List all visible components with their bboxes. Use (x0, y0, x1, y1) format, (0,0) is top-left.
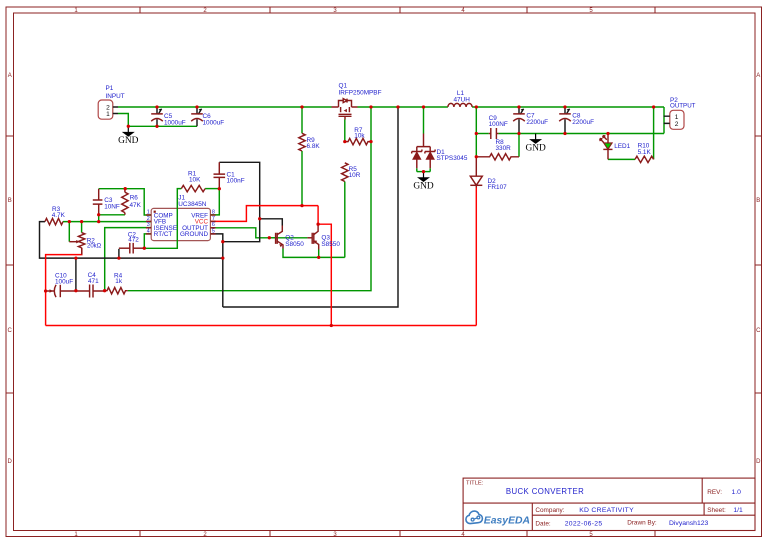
svg-text:GND: GND (118, 136, 139, 146)
svg-text:1000uF: 1000uF (203, 120, 225, 127)
svg-text:KD CREATIVITY: KD CREATIVITY (579, 507, 634, 514)
svg-text:IRFP250MPBF: IRFP250MPBF (339, 89, 382, 96)
svg-text:6.8K: 6.8K (307, 143, 321, 150)
svg-text:100uF: 100uF (55, 278, 73, 285)
svg-text:2: 2 (675, 121, 679, 128)
svg-text:330R: 330R (496, 145, 512, 152)
svg-text:Sheet:: Sheet: (707, 507, 726, 514)
svg-text:10K: 10K (189, 177, 201, 184)
svg-text:Divyansh123: Divyansh123 (669, 520, 709, 527)
svg-text:FR107: FR107 (488, 184, 508, 191)
svg-text:2022-06-25: 2022-06-25 (565, 520, 603, 527)
svg-text:D: D (756, 459, 761, 465)
svg-text:1: 1 (106, 111, 110, 118)
svg-text:Date:: Date: (535, 520, 550, 527)
svg-text:1: 1 (147, 210, 150, 216)
svg-text:10k: 10k (354, 133, 365, 140)
svg-text:REV:: REV: (707, 489, 722, 496)
svg-text:EasyEDA: EasyEDA (484, 516, 530, 527)
svg-text:1/1: 1/1 (733, 507, 743, 514)
svg-text:D: D (8, 459, 13, 465)
svg-text:47K: 47K (130, 202, 142, 209)
svg-text:OUTPUT: OUTPUT (670, 103, 696, 110)
svg-text:P1: P1 (106, 85, 114, 92)
svg-text:R6: R6 (130, 195, 139, 202)
svg-text:20kΩ: 20kΩ (87, 244, 102, 250)
svg-text:GND: GND (525, 143, 546, 153)
svg-text:6: 6 (212, 222, 215, 228)
svg-text:2200uF: 2200uF (526, 119, 548, 126)
svg-text:LED1: LED1 (614, 143, 630, 150)
svg-text:5: 5 (212, 229, 215, 235)
svg-text:BUCK CONVERTER: BUCK CONVERTER (506, 487, 584, 496)
svg-text:GROUND: GROUND (180, 231, 208, 238)
svg-text:RT/CT: RT/CT (154, 231, 173, 238)
svg-text:2200uF: 2200uF (572, 119, 594, 126)
svg-text:B: B (8, 198, 12, 204)
svg-text:100NF: 100NF (489, 121, 508, 128)
svg-text:4: 4 (147, 229, 150, 235)
svg-text:C: C (8, 328, 13, 334)
svg-text:1000uF: 1000uF (164, 120, 186, 127)
svg-text:3: 3 (147, 222, 150, 228)
svg-text:2: 2 (147, 216, 150, 222)
svg-text:C: C (756, 328, 761, 334)
svg-text:S8550: S8550 (321, 241, 340, 248)
svg-text:10R: 10R (349, 172, 361, 179)
svg-text:TITLE:: TITLE: (466, 481, 484, 487)
svg-text:471: 471 (88, 278, 99, 285)
svg-text:Company:: Company: (535, 507, 564, 514)
svg-text:B: B (756, 198, 760, 204)
svg-text:Drawn By:: Drawn By: (627, 520, 657, 527)
svg-text:472: 472 (128, 236, 139, 243)
svg-text:10NF: 10NF (104, 203, 120, 210)
svg-text:4.7K: 4.7K (52, 212, 66, 219)
svg-text:7: 7 (212, 216, 215, 222)
svg-text:S8050: S8050 (285, 241, 304, 248)
svg-text:STPS3045: STPS3045 (437, 155, 468, 162)
svg-text:47UH: 47UH (454, 97, 471, 104)
svg-text:5.1K: 5.1K (638, 149, 652, 156)
svg-text:UC3845N: UC3845N (178, 201, 206, 208)
svg-text:1.0: 1.0 (732, 489, 742, 496)
svg-text:A: A (8, 73, 12, 79)
svg-text:INPUT: INPUT (106, 93, 125, 100)
svg-text:8: 8 (212, 210, 215, 216)
svg-text:100nF: 100nF (227, 178, 245, 185)
svg-text:1: 1 (675, 114, 679, 121)
svg-text:A: A (756, 73, 760, 79)
svg-text:GND: GND (413, 181, 434, 191)
svg-text:1k: 1k (115, 278, 123, 285)
